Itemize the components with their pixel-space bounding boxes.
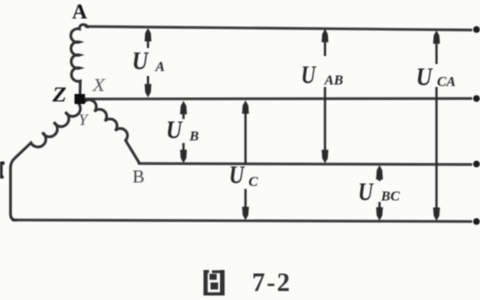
svg-text:A: A <box>155 60 165 75</box>
svg-text:B: B <box>133 167 145 187</box>
svg-text:A: A <box>72 0 88 24</box>
svg-text:U: U <box>416 62 433 91</box>
svg-text:BC: BC <box>380 190 400 205</box>
svg-text:7-2: 7-2 <box>252 268 291 297</box>
svg-text:AB: AB <box>324 74 344 89</box>
svg-text:U: U <box>301 60 317 89</box>
svg-text:Z: Z <box>51 83 66 107</box>
svg-text:U: U <box>358 177 374 206</box>
svg-text:CA: CA <box>437 75 456 90</box>
svg-text:B: B <box>189 130 199 145</box>
svg-text:X: X <box>91 75 106 95</box>
svg-text:U: U <box>166 115 183 144</box>
svg-text:U: U <box>229 160 245 189</box>
svg-text:U: U <box>132 46 149 75</box>
svg-text:C: C <box>249 175 259 190</box>
